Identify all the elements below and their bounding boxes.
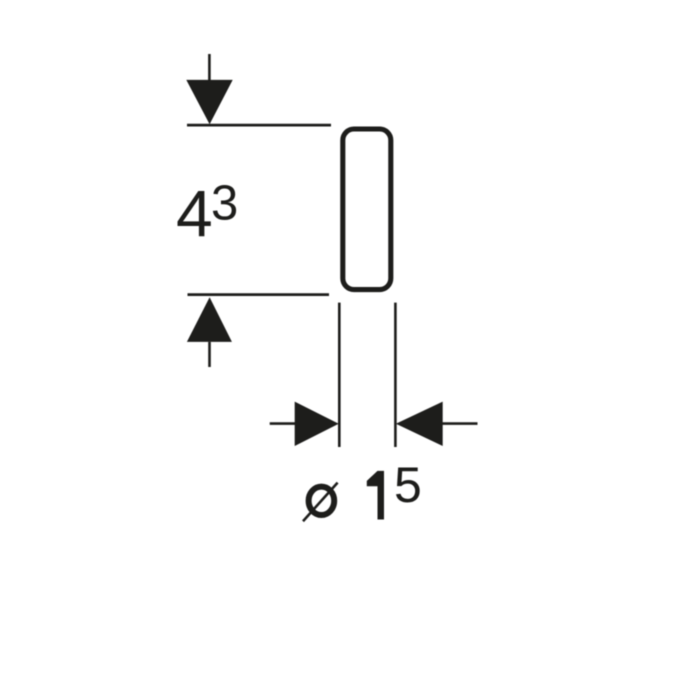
- wire bottom dimension line: [188, 293, 330, 296]
- node right-pointing arrow: [295, 402, 339, 446]
- wire right extension line: [394, 303, 397, 447]
- node up-arrow: [187, 297, 232, 342]
- value label diameter symbol slash: [303, 483, 338, 522]
- wire left arrow tail: [270, 422, 296, 425]
- node left-pointing arrow: [396, 402, 443, 446]
- svg-text:4: 4: [176, 177, 213, 251]
- node pill outline: [343, 129, 391, 290]
- svg-text:3: 3: [211, 176, 238, 230]
- value label diameter symbol ring: [309, 487, 335, 515]
- wire left extension line: [338, 303, 341, 447]
- wire top dimension line: [187, 124, 331, 127]
- wire top arrow tail: [208, 54, 211, 82]
- svg-text:5: 5: [394, 457, 422, 513]
- value label digit 1: [367, 471, 384, 520]
- wire right arrow tail: [442, 422, 478, 425]
- wire up-arrow tail: [208, 342, 211, 367]
- node down-arrow: [186, 80, 232, 124]
